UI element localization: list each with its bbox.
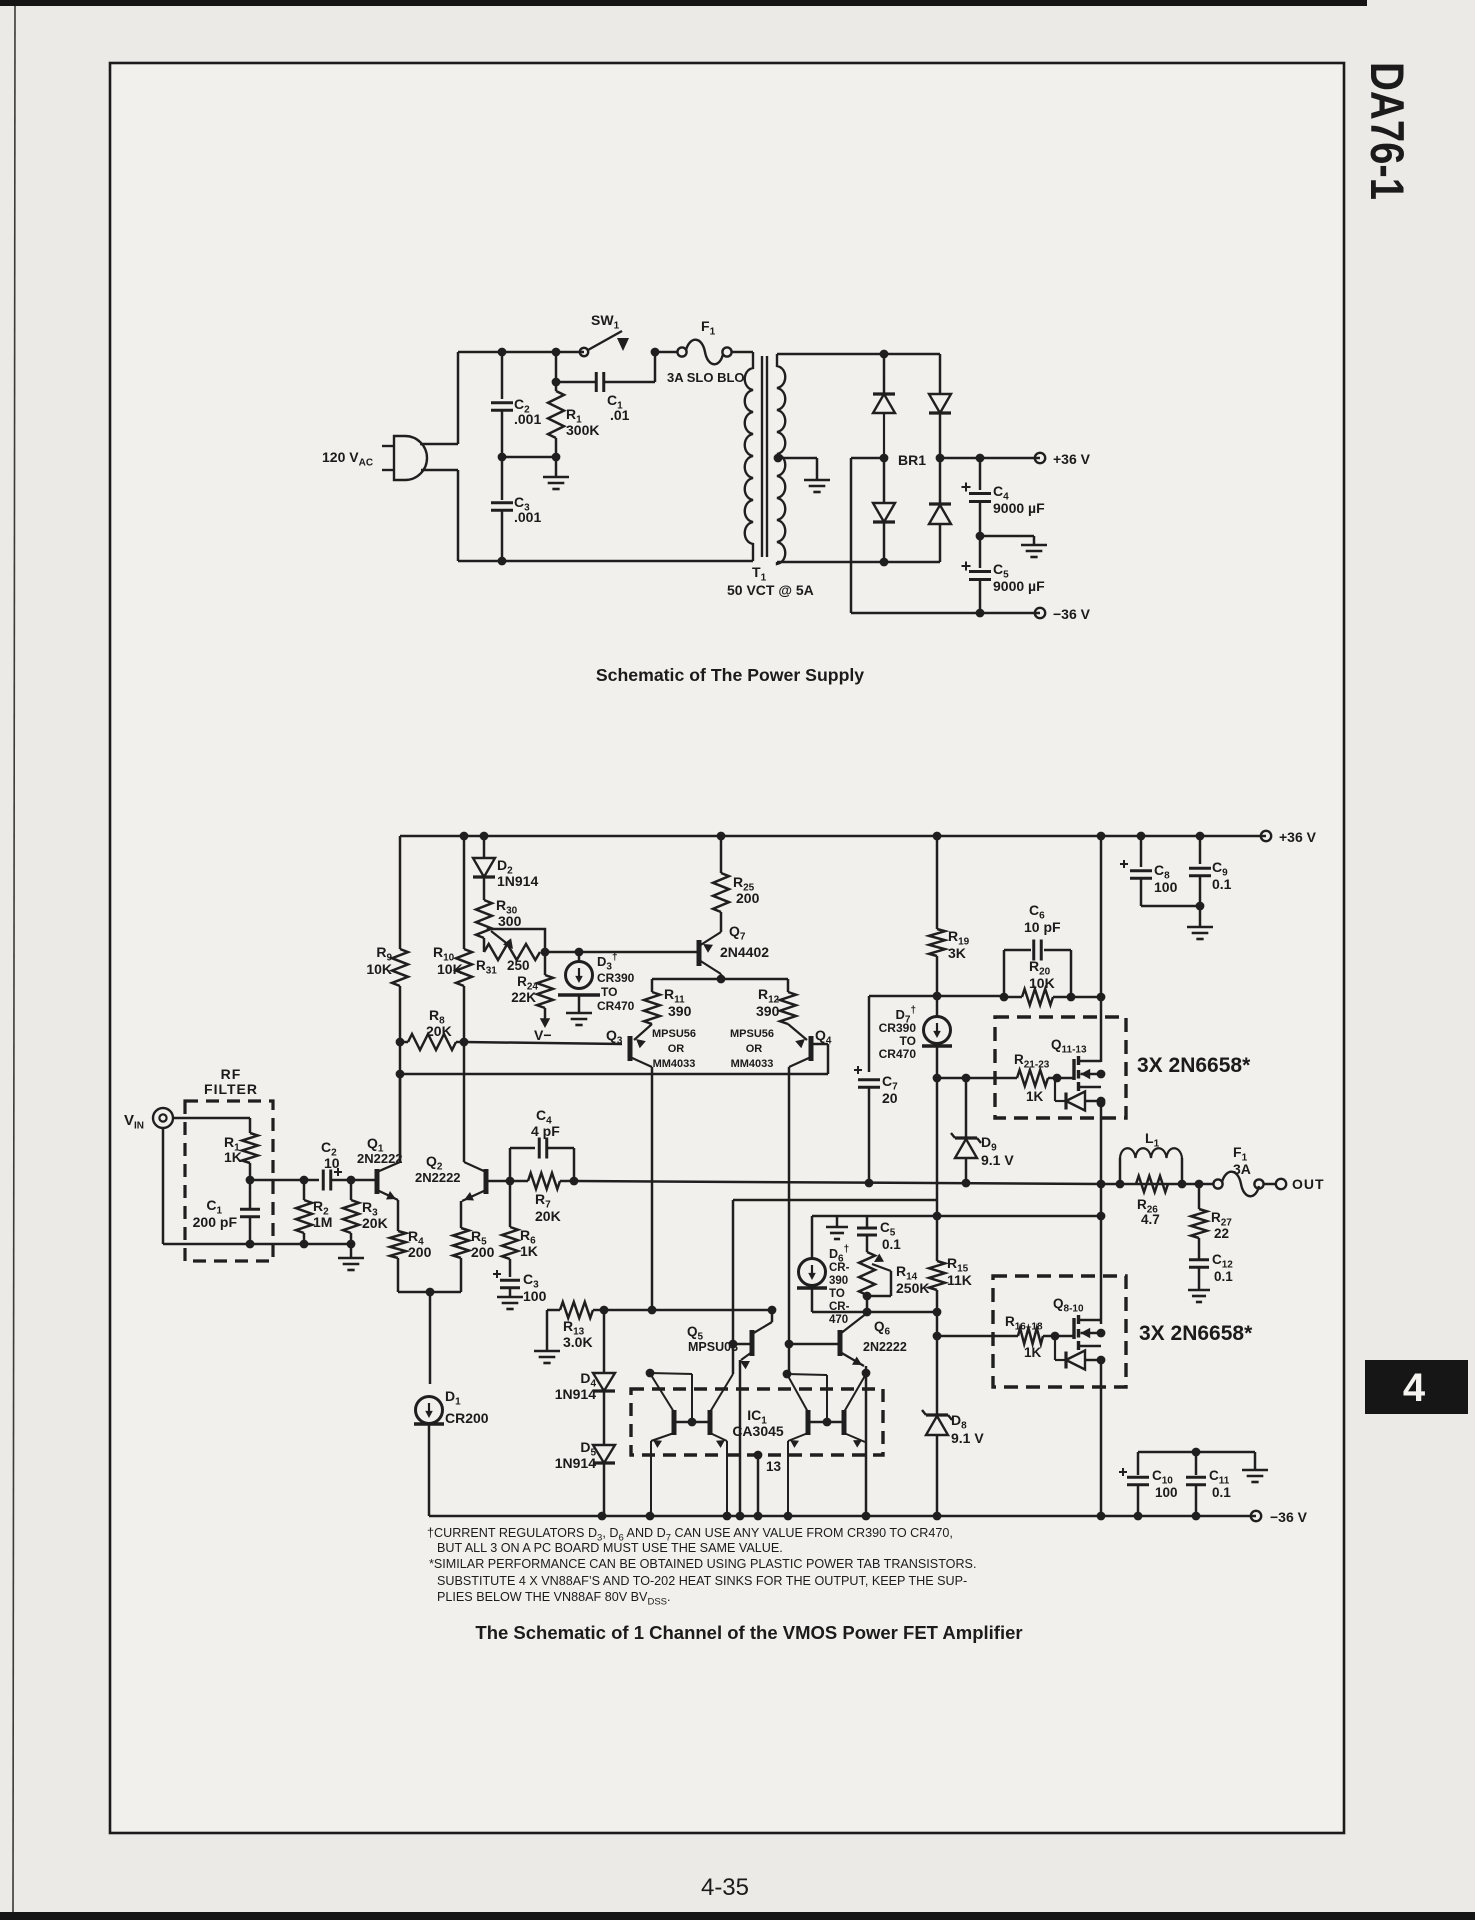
svg-text:0.1: 0.1	[1212, 876, 1232, 892]
svg-text:1N914: 1N914	[555, 1455, 596, 1471]
svg-text:4-35: 4-35	[701, 1874, 749, 1901]
svg-text:10 pF: 10 pF	[1024, 919, 1061, 935]
svg-text:CR390: CR390	[879, 1021, 917, 1035]
svg-text:BUT ALL 3 ON A PC BOARD MUST U: BUT ALL 3 ON A PC BOARD MUST USE THE SAM…	[437, 1541, 783, 1555]
svg-text:200: 200	[736, 890, 760, 906]
svg-text:*SIMILAR PERFORMANCE CAN BE OB: *SIMILAR PERFORMANCE CAN BE OBTAINED USI…	[429, 1557, 976, 1571]
svg-text:CR390: CR390	[597, 971, 635, 985]
svg-text:4 pF: 4 pF	[531, 1123, 560, 1139]
svg-text:0.1: 0.1	[1214, 1269, 1233, 1284]
svg-text:1K: 1K	[1024, 1345, 1042, 1360]
svg-text:10: 10	[324, 1155, 340, 1171]
svg-text:2N4402: 2N4402	[720, 944, 769, 960]
svg-text:TO: TO	[829, 1288, 845, 1300]
svg-text:20: 20	[882, 1090, 898, 1106]
svg-text:CR-: CR-	[829, 1262, 850, 1274]
svg-text:300K: 300K	[566, 422, 599, 438]
svg-text:200: 200	[471, 1244, 495, 1260]
svg-text:390: 390	[829, 1275, 848, 1287]
svg-text:CR-: CR-	[829, 1301, 850, 1313]
svg-text:SUBSTITUTE 4 X VN88AF’S AND TO: SUBSTITUTE 4 X VN88AF’S AND TO-202 HEAT …	[437, 1574, 967, 1588]
svg-text:0.1: 0.1	[882, 1237, 901, 1252]
svg-text:3A SLO BLO: 3A SLO BLO	[667, 370, 745, 385]
svg-text:MM4033: MM4033	[731, 1058, 774, 1070]
svg-text:3A: 3A	[1233, 1161, 1251, 1177]
svg-text:TO: TO	[601, 985, 617, 999]
svg-text:4: 4	[1403, 1366, 1426, 1410]
svg-text:−36 V: −36 V	[1053, 606, 1091, 622]
svg-text:MPSU56: MPSU56	[730, 1028, 774, 1040]
svg-text:CR470: CR470	[597, 999, 635, 1013]
svg-text:OUT: OUT	[1292, 1176, 1325, 1192]
svg-text:100: 100	[523, 1288, 547, 1304]
svg-text:1M: 1M	[313, 1214, 332, 1230]
svg-text:−36 V: −36 V	[1270, 1509, 1308, 1525]
svg-text:3X 2N6658*: 3X 2N6658*	[1137, 1054, 1251, 1077]
svg-text:20K: 20K	[362, 1215, 388, 1231]
svg-text:3X 2N6658*: 3X 2N6658*	[1139, 1322, 1253, 1345]
svg-text:CR470: CR470	[879, 1047, 917, 1061]
svg-text:+36 V: +36 V	[1279, 829, 1317, 845]
svg-text:13: 13	[766, 1459, 782, 1474]
svg-text:390: 390	[668, 1003, 692, 1019]
svg-text:200 pF: 200 pF	[193, 1214, 238, 1230]
svg-text:9.1 V: 9.1 V	[951, 1430, 984, 1446]
svg-text:+36 V: +36 V	[1053, 451, 1091, 467]
svg-text:10K: 10K	[366, 961, 392, 977]
svg-text:OR: OR	[746, 1043, 763, 1055]
svg-text:RF: RF	[221, 1066, 242, 1082]
svg-text:3K: 3K	[948, 945, 966, 961]
svg-text:390: 390	[756, 1003, 780, 1019]
svg-text:MPSU56: MPSU56	[652, 1028, 696, 1040]
svg-text:0.1: 0.1	[1212, 1485, 1231, 1500]
svg-text:100: 100	[1155, 1485, 1178, 1500]
svg-text:1K: 1K	[224, 1149, 242, 1165]
svg-text:The Schematic of 1 Channel of: The Schematic of 1 Channel of the VMOS P…	[475, 1622, 1022, 1643]
svg-text:9000 µF: 9000 µF	[993, 500, 1045, 516]
svg-text:22: 22	[1214, 1226, 1229, 1241]
svg-text:4.7: 4.7	[1141, 1212, 1160, 1227]
svg-text:11K: 11K	[947, 1272, 972, 1288]
svg-text:MM4033: MM4033	[653, 1058, 696, 1070]
svg-text:V−: V−	[534, 1027, 552, 1043]
svg-text:470: 470	[829, 1314, 848, 1326]
svg-text:1K: 1K	[1026, 1089, 1044, 1104]
svg-text:2N2222: 2N2222	[863, 1340, 907, 1354]
svg-text:10K: 10K	[1029, 975, 1055, 991]
svg-text:20K: 20K	[535, 1208, 561, 1224]
svg-text:DA76-1: DA76-1	[1361, 62, 1414, 200]
svg-text:.001: .001	[514, 509, 541, 525]
svg-text:CA3045: CA3045	[732, 1423, 784, 1439]
svg-text:2N2222: 2N2222	[415, 1170, 461, 1185]
svg-text:50 VCT @ 5A: 50 VCT @ 5A	[727, 582, 814, 598]
svg-text:20K: 20K	[426, 1023, 452, 1039]
svg-text:100: 100	[1154, 879, 1178, 895]
svg-text:22K: 22K	[511, 990, 536, 1005]
svg-text:250: 250	[507, 958, 530, 973]
svg-text:.01: .01	[610, 407, 630, 423]
svg-text:9.1 V: 9.1 V	[981, 1152, 1014, 1168]
svg-text:OR: OR	[668, 1043, 685, 1055]
svg-text:BR1: BR1	[898, 452, 926, 468]
svg-text:CR200: CR200	[445, 1410, 489, 1426]
svg-text:FILTER: FILTER	[204, 1081, 258, 1097]
svg-text:Schematic of The Power Supply: Schematic of The Power Supply	[596, 665, 864, 685]
svg-text:300: 300	[498, 913, 522, 929]
svg-text:200: 200	[408, 1244, 432, 1260]
svg-text:250K: 250K	[896, 1280, 929, 1296]
svg-text:3.0K: 3.0K	[563, 1334, 593, 1350]
svg-text:9000 µF: 9000 µF	[993, 578, 1045, 594]
svg-text:10K: 10K	[437, 961, 463, 977]
svg-text:1K: 1K	[520, 1243, 538, 1259]
svg-text:1N914: 1N914	[555, 1386, 596, 1402]
svg-text:1N914: 1N914	[497, 873, 538, 889]
svg-text:.001: .001	[514, 411, 541, 427]
svg-text:TO: TO	[900, 1034, 916, 1048]
